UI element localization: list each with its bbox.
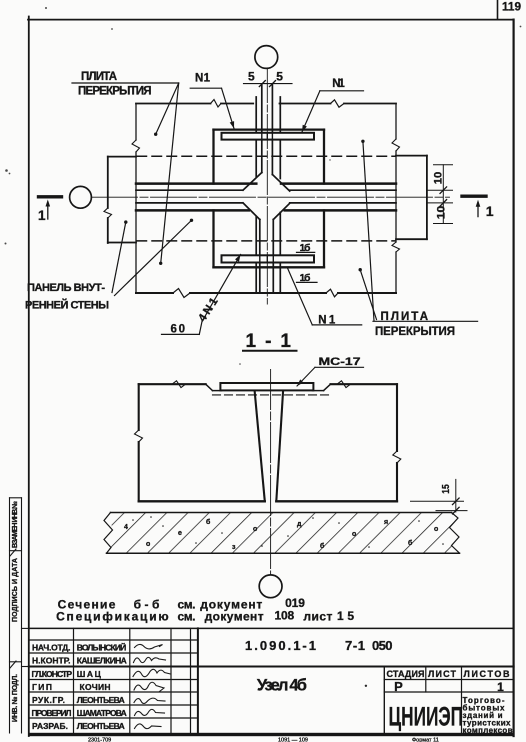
svg-text:МС-17: МС-17 (319, 356, 361, 368)
svg-text:050: 050 (372, 638, 393, 653)
svg-text:ЛЕОНТЬЕВА: ЛЕОНТЬЕВА (77, 695, 125, 705)
svg-text:о: о (253, 526, 257, 533)
svg-text:Формат 11: Формат 11 (412, 738, 439, 742)
svg-text:5: 5 (248, 69, 255, 83)
svg-text:КАШЕЛКИНА: КАШЕЛКИНА (77, 656, 127, 666)
svg-text:ШАЦ: ШАЦ (77, 669, 102, 679)
svg-text:1091 — 109: 1091 — 109 (278, 738, 308, 742)
svg-text:1: 1 (38, 208, 46, 223)
svg-text:15: 15 (337, 609, 354, 623)
svg-text:60: 60 (171, 323, 186, 335)
svg-text:ПАНЕЛЬ ВНУТ-: ПАНЕЛЬ ВНУТ- (27, 282, 105, 294)
svg-text:я: я (384, 519, 388, 526)
svg-text:б: б (320, 542, 325, 550)
svg-text:ВОЛЫНСКИЙ: ВОЛЫНСКИЙ (77, 642, 126, 653)
svg-text:N1: N1 (332, 78, 345, 90)
svg-text:1: 1 (497, 680, 504, 694)
svg-text:СТАДИЯ: СТАДИЯ (387, 669, 425, 679)
svg-text:е: е (178, 530, 182, 537)
svg-text:ЛЕОНТЬЕВА: ЛЕОНТЬЕВА (77, 721, 125, 731)
svg-text:ПРОВЕРИЛ: ПРОВЕРИЛ (32, 708, 72, 718)
svg-text:Р: Р (394, 679, 403, 694)
svg-text:РАЗРАБ.: РАЗРАБ. (32, 721, 68, 731)
svg-text:д: д (297, 521, 302, 528)
svg-text:ГЛ.КОНСТР: ГЛ.КОНСТР (32, 669, 73, 679)
svg-text:1 - 1: 1 - 1 (246, 331, 292, 352)
svg-text:о: о (146, 541, 150, 548)
svg-text:Узел 4б: Узел 4б (257, 677, 307, 695)
svg-text:ПЕРЕКРЫТИЯ: ПЕРЕКРЫТИЯ (375, 326, 455, 338)
svg-text:КОЧИН: КОЧИН (80, 682, 111, 692)
svg-text:ШАМАТРОВА: ШАМАТРОВА (77, 708, 127, 718)
svg-text:5: 5 (276, 69, 283, 83)
svg-text:о: о (352, 531, 356, 538)
svg-text:7-1: 7-1 (345, 638, 365, 653)
svg-text:см.: см. (178, 610, 196, 624)
svg-text:РУК.ГР.: РУК.ГР. (32, 695, 65, 705)
svg-text:15: 15 (440, 484, 452, 494)
svg-text:лист: лист (303, 610, 332, 624)
svg-text:о: о (434, 526, 438, 533)
svg-text:2301-709: 2301-709 (88, 738, 111, 742)
svg-text:ВЗАМЕН ИНВ.№: ВЗАМЕН ИНВ.№ (11, 501, 19, 548)
svg-text:Н.КОНТР.: Н.КОНТР. (32, 656, 71, 666)
svg-text:документ: документ (205, 610, 264, 624)
svg-text:ПЛИТА: ПЛИТА (81, 71, 117, 83)
svg-text:ЛИСТОВ: ЛИСТОВ (464, 669, 511, 679)
svg-text:б: б (408, 539, 413, 547)
svg-text:10: 10 (433, 172, 445, 185)
svg-text:1: 1 (486, 203, 494, 219)
svg-text:1.090.1-1: 1.090.1-1 (245, 638, 316, 653)
svg-text:ИНВ. № ПОДЛ.: ИНВ. № ПОДЛ. (11, 674, 19, 722)
svg-text:10: 10 (436, 206, 448, 220)
svg-text:ЛИСТ: ЛИСТ (428, 669, 457, 679)
svg-text:Спецификацию: Спецификацию (56, 610, 169, 624)
svg-text:ПЕРЕКРЫТИЯ: ПЕРЕКРЫТИЯ (78, 85, 152, 97)
svg-text:N1: N1 (195, 72, 211, 84)
svg-text:ПОДПИСЬ И ДАТА: ПОДПИСЬ И ДАТА (12, 558, 19, 622)
svg-text:119: 119 (502, 1, 521, 13)
svg-text:ГИП: ГИП (32, 682, 52, 692)
svg-text:4: 4 (124, 524, 128, 531)
svg-text:б: б (206, 518, 211, 526)
svg-text:ЦНИИЭП: ЦНИИЭП (389, 702, 464, 732)
svg-text:з: з (232, 544, 236, 551)
svg-text:комплексов: комплексов (463, 726, 513, 735)
svg-text:НАЧ.ОТД.: НАЧ.ОТД. (32, 643, 71, 653)
svg-text:108: 108 (275, 608, 295, 622)
svg-text:РЕННЕЙ СТЕНЫ: РЕННЕЙ СТЕНЫ (25, 299, 109, 312)
svg-text:4N1: 4N1 (196, 295, 221, 324)
